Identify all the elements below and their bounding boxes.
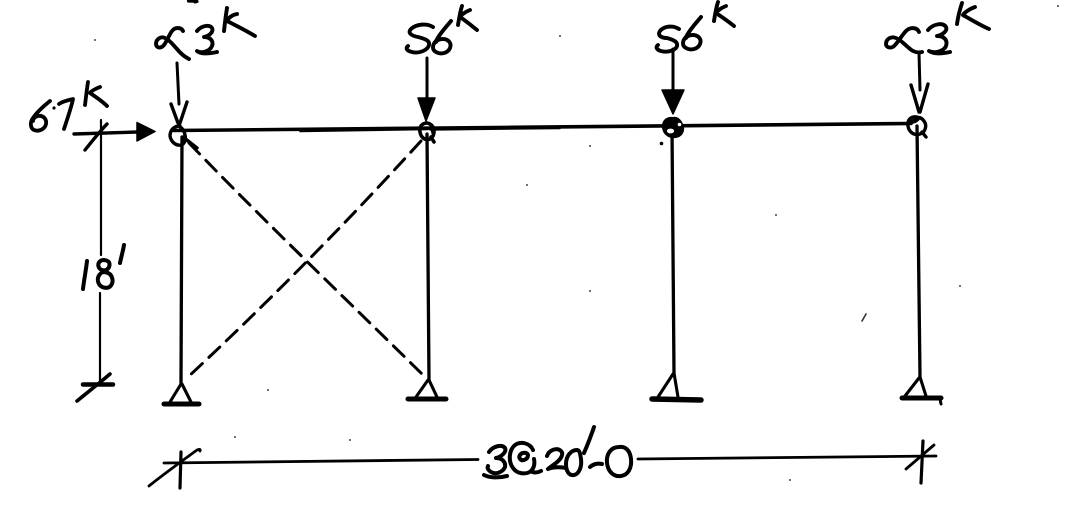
pin joint node 4 — [908, 117, 926, 137]
label 23k right — [886, 3, 989, 53]
label 6.7k — [31, 82, 107, 131]
label 3@20-0 — [484, 427, 631, 477]
label 56k left — [407, 6, 477, 53]
lateral load arrow 6.7k — [74, 123, 155, 142]
label 56k right — [657, 2, 734, 52]
dimension tick bottom (18ft) — [77, 374, 113, 401]
pinned support 1 — [164, 384, 199, 404]
dimension tick right (3@20) — [906, 441, 934, 483]
pinned support 2 — [408, 380, 446, 399]
load arrow P1 at node 1 — [171, 63, 187, 123]
label 23k left — [156, 8, 255, 59]
dimension line 18ft vertical — [100, 120, 101, 382]
pinned support 3 — [652, 373, 701, 400]
beam top chord — [174, 124, 911, 132]
dimension tick top (18ft) — [85, 124, 107, 150]
label 18ft — [83, 245, 124, 289]
column 1 — [181, 137, 182, 384]
dimension tick left (3@20) — [149, 449, 200, 488]
column 4 — [917, 126, 920, 377]
load arrow P3 at node 3 — [662, 49, 684, 114]
column 3 — [672, 128, 674, 373]
column 2 — [427, 134, 429, 380]
load arrow P2 at node 2 — [418, 58, 435, 121]
X-brace diagonal wire top-left to bottom-right (dashed) — [189, 143, 423, 375]
stray ink mark top edge — [189, 1, 198, 2]
load arrow P4 at node 4 — [911, 53, 928, 112]
dimension line 3@20 horizontal — [164, 456, 936, 463]
pin joint node 1 — [170, 126, 197, 148]
pin joint node 3 — [660, 117, 684, 145]
scan speck slash mark — [862, 314, 866, 321]
pinned support 4 — [902, 377, 941, 404]
pin joint node 2 — [420, 123, 434, 142]
X-brace diagonal wire top-right to bottom-left (dashed) — [188, 141, 421, 377]
